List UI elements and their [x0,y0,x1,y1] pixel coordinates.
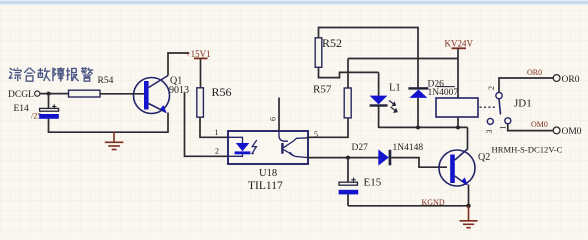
svg-text:U18: U18 [259,168,277,179]
svg-text:OR0: OR0 [527,68,542,77]
wire D27 to Q2 base [391,158,447,168]
wire pin2 to OR0 [499,78,553,92]
svg-text:HRMH-S-DC12V-C: HRMH-S-DC12V-C [492,145,563,155]
svg-text:L1: L1 [389,83,401,94]
relay contact pin 1 [499,118,511,130]
resistor R52 [315,36,342,67]
svg-text:R54: R54 [98,76,114,86]
junction node coil bottom [456,125,460,129]
transistor Q2 [439,149,490,187]
wire Q2 emitter down [468,185,470,206]
relay coil JD1 [436,98,478,117]
capacitor E14 [14,104,59,121]
junction node D26 anode [416,125,420,129]
junction node E15 tap [346,156,350,160]
resistor R56 [197,85,232,117]
svg-text:D27: D27 [352,143,369,153]
wire E15 top lead [347,158,349,183]
wire U18 pin2 to stub [185,93,229,157]
svg-text:E14: E14 [14,104,30,114]
port DCGL [8,90,40,100]
relay contact pin 2 [487,86,502,99]
top window edge strip [0,0,588,5]
svg-text:6: 6 [269,117,278,121]
svg-text:2: 2 [215,147,219,156]
svg-text:TIL117: TIL117 [248,180,283,192]
wire R56 to U18 pin1 [200,117,229,137]
relay contact pin 3 [485,118,494,133]
svg-text:1: 1 [215,128,219,137]
svg-text:OR0: OR0 [562,75,580,85]
transistor Q1 9013 [134,76,190,114]
wire E15 bottom lead [347,195,349,206]
optocoupler U18 TIL117 [228,131,308,164]
resistor R54 [69,76,114,97]
svg-text:Q2: Q2 [478,152,490,163]
wire L1 bottom lead [378,107,380,129]
port OR0 [553,75,579,85]
wire E14 bottom lead [48,119,50,132]
ground (left) [105,132,124,149]
svg-text:3: 3 [485,130,494,134]
junction node emitter/KGND [466,204,470,208]
svg-text:OM0: OM0 [531,120,548,129]
wire collector rail y127 [379,126,468,128]
resistor R57 [313,84,351,118]
wire KGND rail [348,205,469,207]
svg-text:9013: 9013 [169,85,189,96]
svg-text:1N4007: 1N4007 [428,88,459,98]
wire E14 top lead [48,94,50,109]
LED L1 [370,72,401,112]
svg-text:2: 2 [487,86,496,90]
svg-text:1: 1 [499,126,508,130]
wire Q1 emitter down [167,113,169,134]
wire U18 pin4 to D27 [308,157,379,159]
capacitor E15 [339,177,382,195]
svg-text:E15: E15 [364,177,382,189]
svg-text:JD1: JD1 [514,98,532,110]
wire R54 to Q1 base [100,93,144,95]
wire R57 top stem [347,59,349,89]
wire Q1 collector up [168,53,189,76]
diode D27 [352,143,392,166]
svg-text:DCGL: DCGL [8,90,34,100]
power +15V1 [186,49,211,88]
wire U18 pin5 to R57 [308,118,348,137]
svg-text:KV24V: KV24V [445,38,474,48]
wire R52 bottom staircase to L1 [319,67,379,77]
net label 综合故障报警 (blue Chinese text) [9,67,93,81]
wire D26 anode lead [417,98,419,128]
wire Q2 collector up [467,127,469,149]
svg-text:OM0: OM0 [562,127,582,137]
svg-text:R52: R52 [322,36,342,50]
wire top rail [319,28,419,88]
port OM0 [553,127,582,137]
wire DCGL to R54 [40,93,69,95]
ground (below Q2) [460,206,478,228]
svg-text:R57: R57 [313,84,332,96]
wire bottom rail left [48,131,168,133]
diode D26 1N4007 [408,80,444,98]
wire U18 pin6 stub [278,98,280,132]
svg-text:1N4148: 1N4148 [393,143,424,153]
junction node E14 tap [47,92,51,96]
svg-text:KGND: KGND [422,198,445,207]
value 1N4007 [428,87,459,98]
power KV24V [445,38,474,98]
wire KV24V horizontal [348,58,458,60]
dashed actuation line [480,106,497,108]
wire pin1 to OM0 [508,124,553,131]
svg-text:R56: R56 [212,85,232,99]
relay armature [499,99,501,115]
wire coil bottom stem [457,117,459,127]
